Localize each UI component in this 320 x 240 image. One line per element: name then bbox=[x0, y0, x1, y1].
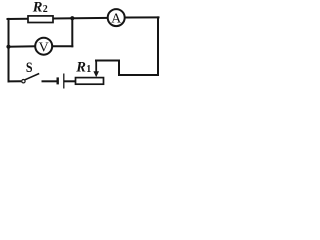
rheostat R1 slider arrowhead bbox=[93, 71, 99, 77]
wire top-right segment (ammeter to corner) bbox=[125, 16, 159, 18]
svg-text:R: R bbox=[32, 0, 43, 16]
node junction dot left bbox=[6, 45, 10, 49]
switch S pivot bbox=[22, 80, 25, 83]
svg-text:R: R bbox=[75, 60, 86, 76]
wire bottom-left segment bbox=[9, 80, 21, 82]
wire step vertical bbox=[118, 61, 120, 76]
svg-text:A: A bbox=[111, 11, 122, 26]
rheostat R1 body bbox=[76, 78, 104, 85]
svg-text:S: S bbox=[26, 59, 33, 76]
wire voltmeter right segment bbox=[52, 45, 72, 47]
ammeter A bbox=[108, 9, 125, 26]
voltmeter V bbox=[35, 38, 52, 55]
wire right vertical bbox=[157, 17, 159, 75]
battery positive plate (long thin) bbox=[63, 74, 65, 89]
wire bottom-right horizontal bbox=[119, 74, 158, 76]
rheostat R1 slider shaft bbox=[95, 61, 97, 73]
node junction dot top bbox=[70, 16, 74, 20]
wire switch to battery bbox=[43, 80, 57, 82]
wire top-middle segment (R2 to ammeter) bbox=[53, 17, 108, 20]
svg-text:2: 2 bbox=[43, 4, 48, 15]
wire battery to R1 bbox=[65, 80, 76, 82]
svg-text:V: V bbox=[39, 41, 49, 56]
wire voltmeter left segment bbox=[9, 45, 36, 47]
switch S blade bbox=[25, 74, 39, 80]
wire voltmeter branch vertical bbox=[71, 18, 73, 46]
wire left vertical bbox=[8, 19, 10, 82]
wire step horizontal to slider bbox=[96, 60, 119, 62]
battery negative plate (short thick) bbox=[57, 77, 59, 84]
resistor R2 bbox=[28, 16, 53, 23]
svg-text:1: 1 bbox=[86, 64, 91, 75]
wire top-left segment bbox=[8, 18, 29, 20]
